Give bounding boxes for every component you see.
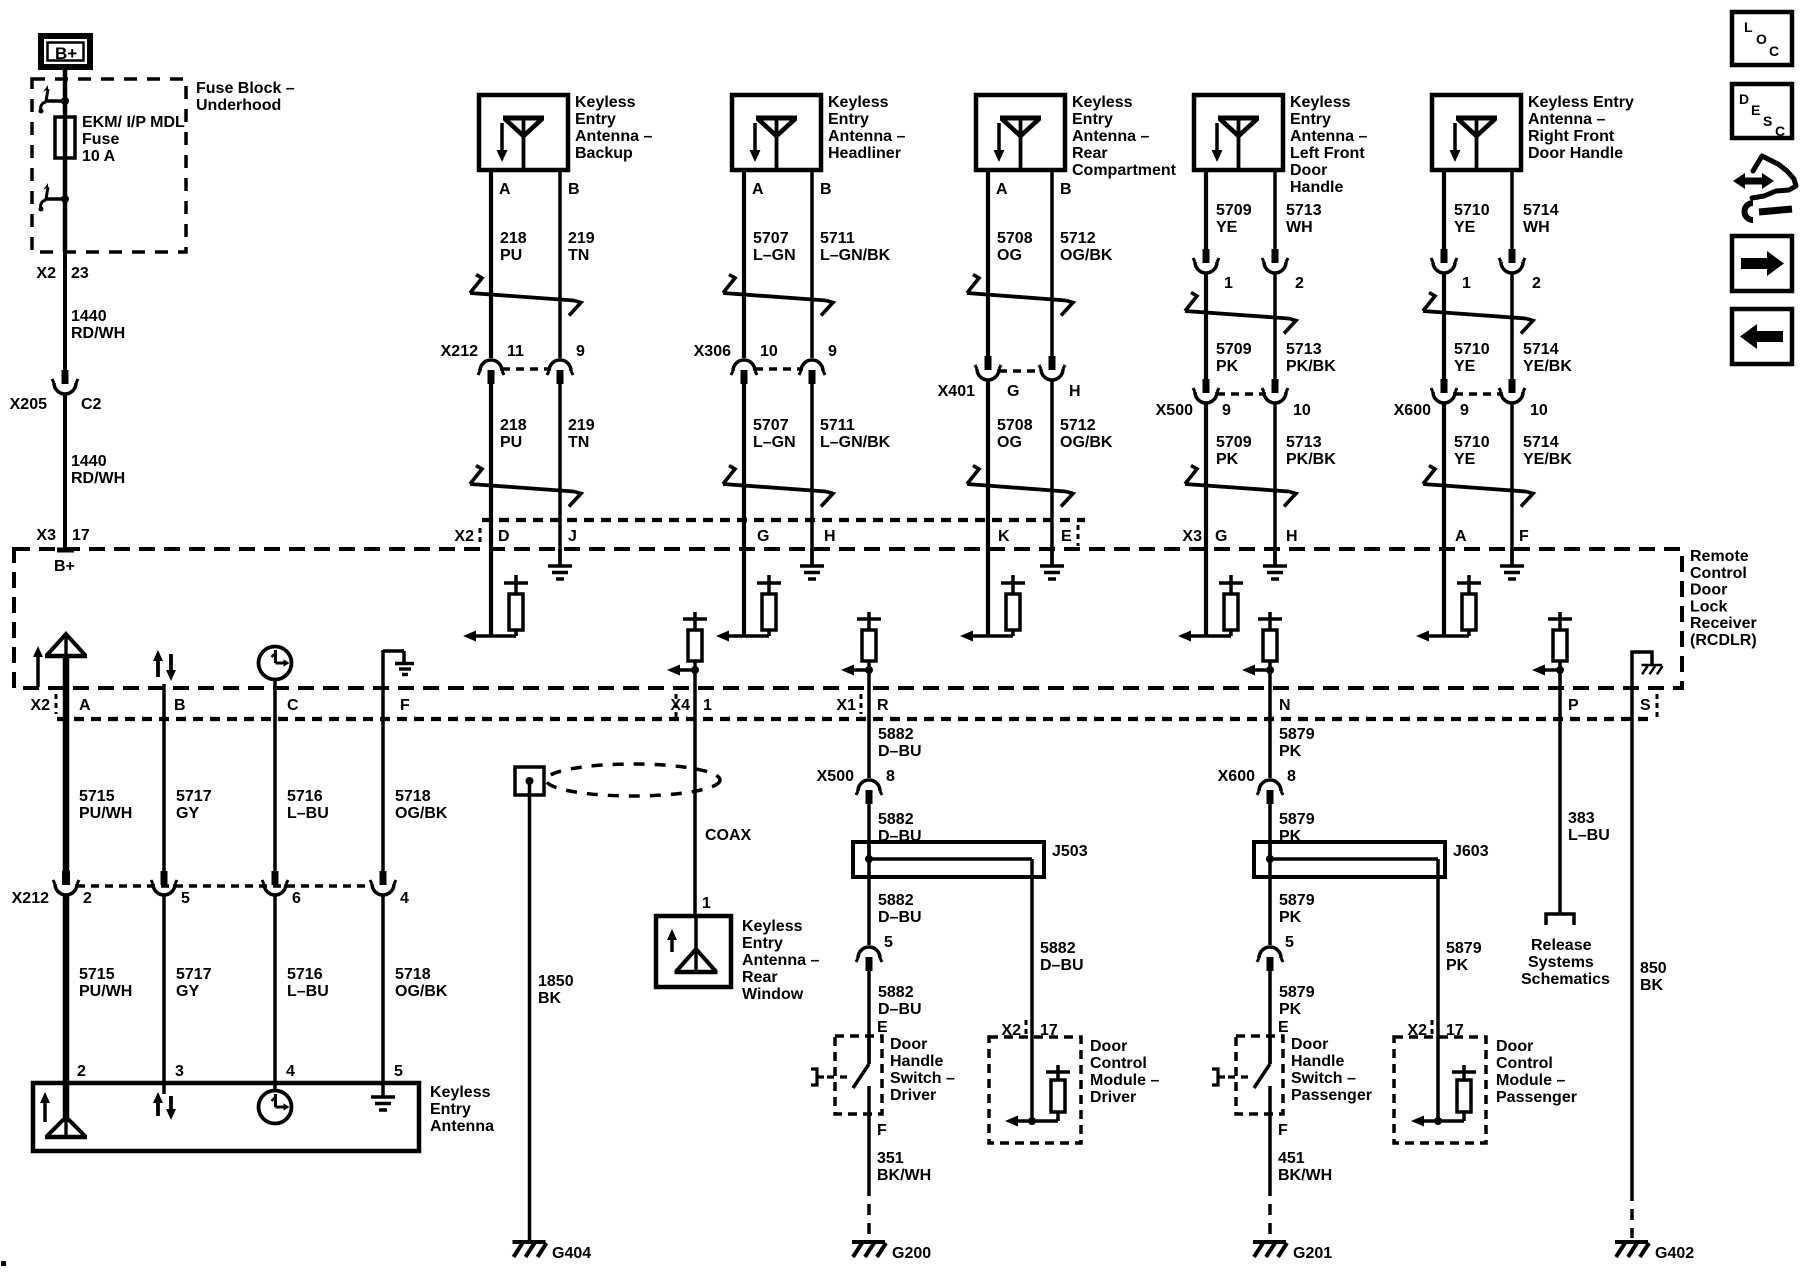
fuse block - underhood enclosure (dashed) (32, 79, 186, 252)
svg-text:Door: Door (890, 1036, 927, 1053)
svg-text:YE: YE (1454, 358, 1476, 375)
wire 5882 D-BU branch (J503 to door control module driver) (1030, 877, 1034, 1037)
svg-text:5716: 5716 (287, 788, 323, 805)
svg-text:A: A (752, 181, 764, 198)
svg-text:Control: Control (1496, 1055, 1553, 1072)
svg-text:J603: J603 (1453, 843, 1489, 860)
label 5879 PK (branch) (1446, 940, 1482, 974)
svg-text:BK: BK (1640, 977, 1664, 994)
pin label G (RCDLR top X2) (757, 528, 769, 545)
svg-text:5710: 5710 (1454, 341, 1490, 358)
pin label E (RCDLR top X2) (1061, 528, 1072, 545)
pin label H (RCDLR top X2) (824, 528, 836, 545)
label 5882 D-BU (segment 4) (878, 984, 922, 1018)
label 5711 L–GN/BK (lower) (820, 417, 891, 451)
connector X2 pin 17 labels (door control module passenger) (1407, 1020, 1463, 1039)
RCDLR enclosure dashed box (Remote Control Door Lock Receiver) (14, 549, 1682, 688)
pin label A of antenna A1 (499, 181, 511, 198)
label 5707 L–GN (lower) (753, 417, 796, 451)
svg-text:X2: X2 (30, 697, 50, 714)
in-line connector X500 pin 8 (817, 768, 895, 804)
label 5712 OG/BK (lower) (1060, 417, 1113, 451)
label text for antenna A3 (1072, 94, 1177, 179)
pin label C (RCDLR bottom X2) (287, 697, 299, 714)
RCDLR output resistor and arrow (pin X4-1) (667, 612, 707, 676)
pin label 3 (keyless entry antenna) (175, 1063, 184, 1080)
in-line connector X401 pins G/H (938, 356, 1081, 400)
switch actuator bracket (driver) (811, 1069, 852, 1085)
in-line connector pin 5 (driver) (856, 934, 893, 971)
svg-text:Door: Door (1291, 1036, 1328, 1053)
svg-text:R: R (877, 697, 889, 714)
svg-text:OG/BK: OG/BK (395, 983, 448, 1000)
wire 218 PU (antenna 1 left, upper) (489, 170, 493, 358)
svg-text:B+: B+ (55, 44, 77, 63)
wire 5707 L–GN (antenna 2 left, lower) (742, 384, 746, 636)
label 5716 L-BU (upper) (287, 788, 329, 822)
svg-text:OG: OG (997, 247, 1022, 264)
svg-text:BK/WH: BK/WH (877, 1167, 931, 1184)
svg-text:YE/BK: YE/BK (1523, 451, 1572, 468)
svg-text:PK: PK (1279, 909, 1302, 926)
svg-text:5713: 5713 (1286, 434, 1322, 451)
RF up-arrow icon inside keyless entry antenna box (40, 1092, 50, 1122)
RF down-arrow icon inside A5 (1450, 123, 1461, 162)
svg-text:PU: PU (500, 247, 522, 264)
pin label A of antenna A3 (996, 181, 1008, 198)
wire 219 TN (antenna 1 right, lower) (558, 384, 562, 565)
svg-text:850: 850 (1640, 960, 1667, 977)
svg-text:PK: PK (1279, 1001, 1302, 1018)
svg-text:Compartment: Compartment (1072, 162, 1177, 179)
svg-text:PK/BK: PK/BK (1286, 358, 1336, 375)
svg-text:Module –: Module – (1496, 1072, 1565, 1089)
svg-text:L–GN/BK: L–GN/BK (820, 247, 891, 264)
svg-text:S: S (1640, 697, 1651, 714)
svg-text:X212: X212 (441, 343, 478, 360)
svg-text:4: 4 (400, 890, 409, 907)
label 351 BK/WH (877, 1150, 931, 1184)
svg-text:5716: 5716 (287, 966, 323, 983)
wire 383 L-BU (RCDLR P to release systems) (1558, 688, 1562, 913)
wire 1440 RD/WH (upper segment) (63, 252, 67, 370)
svg-text:3: 3 (175, 1063, 184, 1080)
svg-text:F: F (400, 697, 410, 714)
svg-text:5708: 5708 (997, 230, 1033, 247)
connector X3 pin 17 labels (36, 527, 89, 544)
svg-text:Lock: Lock (1690, 598, 1727, 615)
svg-text:5710: 5710 (1454, 434, 1490, 451)
RCDLR input termination resistor and arrow (pin G) (716, 575, 781, 642)
svg-text:F: F (1278, 1122, 1288, 1139)
twisted pair symbol (antenna 1, lower) (470, 466, 581, 507)
label 5710 YE (below X600) (1454, 434, 1490, 468)
svg-text:1: 1 (1224, 275, 1233, 292)
svg-text:WH: WH (1523, 219, 1550, 236)
wire 451 BK/WH (1268, 1114, 1272, 1238)
svg-text:5711: 5711 (820, 230, 855, 247)
label 5716 L-BU (lower) (287, 966, 329, 1000)
svg-text:Antenna –: Antenna – (742, 952, 819, 969)
svg-text:K: K (998, 528, 1010, 545)
label 5708 OG (upper) (997, 230, 1033, 264)
wire 5879 PK (pin 5 to door handle switch) (1268, 970, 1272, 1064)
antenna symbol inside keyless entry antenna box (pin 2) (45, 1117, 87, 1137)
RCDLR output resistor and arrow (pin X1-P) (1532, 612, 1572, 676)
svg-text:H: H (1069, 383, 1081, 400)
twisted pair symbol (antenna 2, upper) (723, 275, 833, 316)
svg-text:Keyless: Keyless (742, 918, 803, 935)
svg-text:H: H (824, 528, 836, 545)
svg-text:X401: X401 (938, 383, 975, 400)
pin label A of antenna A2 (752, 181, 764, 198)
RCDLR input termination resistor and arrow (pin D) (463, 575, 528, 642)
svg-text:Antenna: Antenna (430, 1118, 494, 1135)
svg-text:X212: X212 (12, 890, 49, 907)
antenna symbol inside A2 (756, 118, 797, 170)
svg-text:L–BU: L–BU (1568, 827, 1610, 844)
svg-text:9: 9 (576, 343, 585, 360)
switch actuator bracket (passenger) (1212, 1069, 1253, 1085)
svg-text:5879: 5879 (1279, 726, 1315, 743)
svg-text:5714: 5714 (1523, 202, 1559, 219)
svg-text:Keyless: Keyless (828, 94, 889, 111)
svg-text:PU: PU (500, 434, 522, 451)
wire 5882 D-BU (X500 to J503) (867, 803, 871, 859)
svg-text:218: 218 (500, 417, 527, 434)
svg-text:17: 17 (72, 527, 90, 544)
svg-text:Fuse Block –: Fuse Block – (196, 80, 295, 97)
wire 5714 YE/BK (antenna 5 right, lower) (1510, 403, 1514, 565)
antenna symbol inside rear window antenna box (675, 916, 718, 972)
label 5717 GY (upper) (176, 788, 212, 822)
wire COAX from RCDLR pin X4-1 to rear window antenna (693, 688, 697, 916)
label Fuse Block - Underhood (196, 80, 295, 114)
svg-text:Release: Release (1531, 937, 1592, 954)
pin label F (RCDLR bottom X2) (400, 697, 410, 714)
connector label X1 (RCDLR bottom) (836, 694, 861, 714)
svg-text:2: 2 (83, 890, 92, 907)
connector label X3 (RCDLR top) (1182, 528, 1202, 545)
svg-text:Handle: Handle (1291, 1053, 1344, 1070)
wire 5718 OG/BK (lower segment) (381, 895, 385, 1097)
svg-text:8: 8 (1287, 768, 1296, 785)
ground G201 (1253, 1242, 1332, 1262)
svg-text:BK/WH: BK/WH (1278, 1167, 1332, 1184)
RF down-arrow icon inside A2 (750, 123, 761, 162)
ground G200 (852, 1242, 931, 1262)
svg-text:Keyless: Keyless (575, 94, 636, 111)
ground symbol inside RCDLR below pin E (1040, 549, 1064, 579)
svg-text:Entry: Entry (575, 111, 616, 128)
label Keyless Entry Antenna (bottom left box) (430, 1084, 494, 1135)
connector label X2 (RCDLR top) (454, 528, 480, 546)
pin label B of antenna A2 (820, 181, 832, 198)
pin label E (door handle switch driver) (877, 1019, 888, 1036)
RF up-arrow icon inside RCDLR (33, 646, 43, 687)
wire from RCDLR pin X1-P through bottom edge (1558, 670, 1562, 688)
svg-text:YE: YE (1454, 451, 1476, 468)
wire segment below pins 1/2 (antenna 4) (1206, 273, 1275, 379)
svg-text:RD/WH: RD/WH (71, 325, 125, 342)
svg-text:218: 218 (500, 230, 527, 247)
svg-text:Module –: Module – (1090, 1072, 1159, 1089)
label text for antenna A2 (828, 94, 905, 162)
svg-text:5707: 5707 (753, 417, 789, 434)
svg-text:(RCDLR): (RCDLR) (1690, 632, 1757, 649)
svg-text:Rear: Rear (742, 969, 778, 986)
svg-text:G201: G201 (1293, 1245, 1332, 1262)
wire 5717 GY (upper segment) (162, 688, 166, 871)
pin label B (RCDLR bottom X2) (174, 697, 186, 714)
wire 5708 OG (antenna 3 left, upper) (986, 170, 990, 356)
wire 5879 PK (RCDLR N to X600) (1268, 688, 1272, 778)
svg-text:X1: X1 (836, 697, 856, 714)
svg-text:TN: TN (568, 434, 589, 451)
svg-text:Switch –: Switch – (890, 1070, 955, 1087)
wire 219 TN (antenna 1 right, upper) (558, 170, 562, 358)
in-line connector X205 pin C2 (10, 370, 102, 413)
svg-text:5714: 5714 (1523, 341, 1559, 358)
antenna 4 in-line connector pin 2 (1262, 249, 1304, 292)
data up/down arrows icon inside RCDLR (pin B) (153, 650, 176, 688)
ground symbol inside RCDLR below pin J (548, 549, 572, 579)
svg-text:C: C (287, 697, 299, 714)
svg-text:219: 219 (568, 417, 595, 434)
door control module passenger internal resistor and arrow (1411, 1037, 1476, 1127)
svg-text:BK: BK (538, 990, 562, 1007)
svg-text:PU/WH: PU/WH (79, 805, 132, 822)
svg-text:5711: 5711 (820, 417, 855, 434)
svg-text:PK: PK (1216, 358, 1239, 375)
svg-text:4: 4 (286, 1063, 295, 1080)
keyless entry antenna box A1 (Keyless Entry Antenna - Backup) (479, 95, 568, 170)
svg-text:Schematics: Schematics (1521, 971, 1610, 988)
svg-text:D: D (1739, 91, 1749, 107)
label 1850 BK (538, 973, 574, 1007)
wire 1440 RD/WH (lower segment) (63, 394, 67, 552)
terminal stub of B+ feed at RCDLR edge (54, 550, 75, 575)
svg-text:Right Front: Right Front (1528, 128, 1615, 145)
in-line connector X500 pins 9/10 (1156, 379, 1311, 419)
ground icon inside keyless entry antenna box (pin 5) (371, 1097, 395, 1110)
label Door Handle Switch - Passenger (1291, 1036, 1372, 1104)
svg-text:219: 219 (568, 230, 595, 247)
svg-text:Control: Control (1090, 1055, 1147, 1072)
RF down-arrow icon inside A1 (497, 123, 508, 162)
label 5715 PU/WH (lower) (79, 966, 132, 1000)
connector X2 pin 23 labels (36, 265, 88, 282)
svg-text:Entry: Entry (1290, 111, 1331, 128)
svg-text:B+: B+ (54, 558, 75, 575)
wire from bottom clip out of fuse block (63, 199, 68, 252)
RCDLR internal chassis ground at pin S (1632, 652, 1663, 688)
svg-text:2: 2 (1532, 275, 1541, 292)
label 5718 OG/BK (lower) (395, 966, 448, 1000)
keyless entry antenna box A5 (Keyless Entry Antenna - Right Front Door Handle) (1432, 95, 1521, 170)
svg-text:J: J (568, 528, 577, 545)
svg-text:Entry: Entry (1072, 111, 1113, 128)
wire 5710 YE (antenna 5 pin 1 lead) (1442, 170, 1446, 253)
svg-text:5882: 5882 (878, 984, 914, 1001)
svg-text:L–BU: L–BU (287, 805, 329, 822)
svg-text:D–BU: D–BU (878, 909, 922, 926)
svg-text:G: G (757, 528, 769, 545)
svg-text:Rear: Rear (1072, 145, 1108, 162)
svg-text:Passenger: Passenger (1496, 1089, 1577, 1106)
in-line connector pin 5 (passenger) (1257, 934, 1294, 971)
pin label A (RCDLR bottom X2) (79, 697, 91, 714)
svg-text:5718: 5718 (395, 788, 431, 805)
svg-text:PU/WH: PU/WH (79, 983, 132, 1000)
svg-text:Antenna –: Antenna – (1290, 128, 1367, 145)
wire from RCDLR pin X1-R through bottom edge (867, 670, 871, 688)
svg-text:351: 351 (877, 1150, 904, 1167)
wire 5711 L–GN/BK (antenna 2 right, upper) (810, 170, 814, 358)
twisted pair symbol (antenna 5, upper) (1423, 293, 1533, 334)
svg-text:F: F (1519, 528, 1529, 545)
switch contacts (door handle switch driver) (853, 1036, 869, 1114)
svg-text:L–GN: L–GN (753, 247, 796, 264)
pin label F (door handle switch passenger) (1278, 1122, 1288, 1139)
RCDLR input termination resistor and arrow (pin K) (960, 575, 1025, 642)
svg-text:5709: 5709 (1216, 341, 1252, 358)
svg-text:8: 8 (886, 768, 895, 785)
door control module driver internal resistor and arrow (1005, 1037, 1070, 1127)
svg-text:5879: 5879 (1279, 984, 1315, 1001)
svg-text:Window: Window (742, 986, 804, 1003)
twisted pair symbol (antenna 5, lower) (1423, 466, 1533, 507)
svg-text:B: B (820, 181, 832, 198)
svg-text:Antenna –: Antenna – (1528, 111, 1605, 128)
svg-text:5717: 5717 (176, 788, 212, 805)
off-page connector to Release Systems Schematics (1546, 914, 1574, 925)
antenna 4 in-line connector pin 1 (1193, 249, 1233, 292)
antenna 5 in-line connector pin 2 (1499, 249, 1541, 292)
svg-text:Door: Door (1690, 582, 1727, 599)
svg-text:B: B (568, 181, 580, 198)
label 5879 PK (segment 2) (1279, 811, 1315, 845)
svg-text:Control: Control (1690, 565, 1747, 582)
wire from RCDLR pin X4-1 through bottom edge (693, 670, 697, 688)
label 5713 WH (1286, 202, 1322, 236)
coax shield termination box with junction dot (515, 767, 544, 795)
svg-text:5709: 5709 (1216, 434, 1252, 451)
antenna 5 in-line connector pin 1 (1431, 249, 1471, 292)
clock icon inside RCDLR (pin C) (259, 647, 292, 689)
label 5879 PK (segment 4) (1279, 984, 1315, 1018)
wire 850 BK (RCDLR S to G402) (1630, 688, 1634, 1238)
battery positive terminal B+ (41, 36, 90, 67)
wire 5712 OG/BK (antenna 3 right, upper) (1050, 170, 1054, 356)
keyless entry antenna box A3 (Keyless Entry Antenna - Rear Compartment) (976, 95, 1065, 170)
svg-text:X3: X3 (1182, 528, 1202, 545)
wire 5715 PU/WH (upper segment) (63, 688, 70, 871)
label text for antenna A4 (1290, 94, 1367, 196)
svg-text:5717: 5717 (176, 966, 212, 983)
switch contacts (door handle switch passenger) (1254, 1036, 1270, 1114)
svg-text:X600: X600 (1394, 402, 1431, 419)
svg-text:Antenna –: Antenna – (575, 128, 652, 145)
wire 5716 L-BU (lower segment) (273, 895, 277, 1092)
wire 351 BK/WH (867, 1114, 871, 1238)
svg-text:PK/BK: PK/BK (1286, 451, 1336, 468)
pin label S (RCDLR bottom) (1640, 694, 1657, 719)
svg-text:WH: WH (1286, 219, 1313, 236)
label 5882 D-BU (segment 3) (878, 892, 922, 926)
wire 5882 D-BU (pin 5 to door handle switch) (867, 970, 871, 1064)
svg-text:H: H (1286, 528, 1298, 545)
svg-text:5882: 5882 (1040, 940, 1076, 957)
svg-text:G: G (1007, 383, 1019, 400)
pin label H (RCDLR top X3) (1286, 528, 1298, 545)
svg-text:5: 5 (1285, 934, 1294, 951)
wire 5709 YE (antenna 4 pin 1 lead) (1204, 170, 1208, 253)
data up/down arrows icon inside keyless entry antenna box (pin 3) (153, 1092, 176, 1120)
wire B+ feed from B+ box to fuse block (63, 70, 68, 101)
svg-text:Door: Door (1090, 1038, 1127, 1055)
svg-text:A: A (996, 181, 1008, 198)
door handle switch - passenger (dashed box) (1236, 1036, 1283, 1114)
svg-text:X2: X2 (36, 265, 56, 282)
label text for antenna A1 (575, 94, 652, 162)
svg-text:Left Front: Left Front (1290, 145, 1365, 162)
svg-text:Fuse: Fuse (82, 131, 119, 148)
wire 218 PU (antenna 1 left, lower) (489, 384, 493, 636)
svg-text:G: G (1215, 528, 1227, 545)
door control module - driver (dashed box) (989, 1037, 1081, 1143)
svg-text:5882: 5882 (878, 892, 914, 909)
label 850 BK (1640, 960, 1667, 994)
label 5882 D-BU (branch) (1040, 940, 1084, 974)
label 383 L-BU (1568, 810, 1610, 844)
svg-text:5718: 5718 (395, 966, 431, 983)
label 1440 RD/WH (lower) (71, 453, 125, 487)
wire 5879 PK (X600 to J603) (1268, 803, 1272, 859)
svg-text:A: A (79, 697, 91, 714)
svg-text:5713: 5713 (1286, 202, 1322, 219)
label 5714 YE/BK (above X600) (1523, 341, 1572, 375)
svg-text:Remote: Remote (1690, 548, 1749, 565)
svg-text:5: 5 (394, 1063, 403, 1080)
svg-text:TN: TN (568, 247, 589, 264)
RCDLR output resistor and arrow (pin X1-R) (841, 612, 881, 676)
svg-text:5709: 5709 (1216, 202, 1252, 219)
label Door Control Module - Driver (1090, 1038, 1159, 1106)
svg-text:X500: X500 (817, 768, 854, 785)
twisted pair symbol (antenna 3, lower) (967, 466, 1073, 507)
wire 5713 WH (antenna 4 pin 2 lead) (1273, 170, 1277, 253)
svg-text:E: E (877, 1019, 888, 1036)
svg-text:D–BU: D–BU (878, 1001, 922, 1018)
label Door Handle Switch - Driver (890, 1036, 955, 1104)
svg-text:5882: 5882 (878, 811, 914, 828)
in-line connector X306 pins 10/9 (694, 343, 837, 384)
wire 5716 L-BU (upper segment) (273, 688, 277, 871)
svg-text:OG/BK: OG/BK (1060, 247, 1113, 264)
svg-text:PK: PK (1279, 743, 1302, 760)
pin label K (RCDLR top X2) (998, 528, 1010, 545)
label 5710 YE (above X600) (1454, 341, 1490, 375)
in-line connector X600 pins 9/10 (1394, 379, 1548, 419)
svg-text:1: 1 (702, 895, 711, 912)
svg-text:5712: 5712 (1060, 230, 1096, 247)
svg-text:COAX: COAX (705, 827, 752, 844)
svg-text:5715: 5715 (79, 966, 115, 983)
svg-text:5714: 5714 (1523, 434, 1559, 451)
svg-text:Keyless: Keyless (1290, 94, 1351, 111)
wire 5879 PK (J603 to pin 5 connector) (1268, 877, 1272, 945)
